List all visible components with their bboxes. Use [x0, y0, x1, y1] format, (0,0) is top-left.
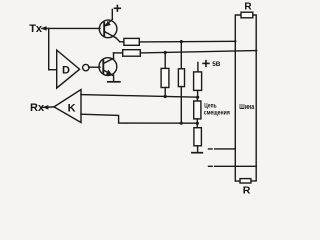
svg-text:D: D — [62, 65, 70, 77]
svg-text:K: K — [68, 102, 76, 114]
svg-text:Rx: Rx — [30, 102, 45, 114]
svg-text:5В: 5В — [212, 61, 220, 68]
svg-text:Tx: Tx — [29, 23, 43, 35]
svg-text:R: R — [244, 2, 252, 13]
svg-text:Шина: Шина — [239, 104, 254, 111]
svg-text:R: R — [243, 185, 251, 196]
svg-text:смещения: смещения — [204, 110, 230, 117]
